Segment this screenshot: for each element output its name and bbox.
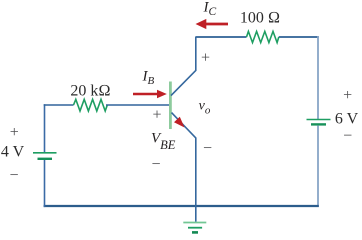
label: − of V_BE <box>151 156 160 173</box>
svg-text:20 kΩ: 20 kΩ <box>70 83 110 100</box>
resistor 20 kΩ (zigzag) <box>74 99 108 111</box>
svg-text:+: + <box>10 124 19 141</box>
svg-text:−: − <box>151 156 160 173</box>
wire: right rail upper (top corner down to 6V battery) <box>317 36 319 119</box>
label: − of v_o <box>203 140 212 157</box>
current arrow I_B (red, pointing right) <box>133 90 167 99</box>
svg-text:100 Ω: 100 Ω <box>240 10 280 27</box>
wire: base lead right segment (20k resistor to transistor base) <box>106 104 170 106</box>
battery 4V: short plate <box>38 158 53 160</box>
wire: left rail upper (top corner down to 4V battery) <box>44 104 46 152</box>
battery 6V: short plate <box>311 123 326 125</box>
label: − polarity of 6V source <box>343 128 352 145</box>
svg-text:+: + <box>152 106 161 123</box>
label: 100 Ω value <box>240 10 280 27</box>
ground: plate 2 (middle) <box>188 227 202 229</box>
label: V_BE <box>151 131 176 153</box>
ground: plate 1 (longest) <box>183 222 206 224</box>
transistor Q1: collector lead (diagonal + vertical to top wire) <box>171 37 196 96</box>
svg-text:−: − <box>203 140 212 157</box>
resistor 100 Ω (zigzag) <box>247 31 279 42</box>
label: v_o output voltage <box>199 98 211 116</box>
wire: right rail lower (6V battery down to bottom corner) <box>317 126 319 207</box>
transistor Q1: emitter arrowhead (npn, red) <box>174 117 185 128</box>
transistor Q1: emitter lead (diagonal + vertical down to ground) <box>172 113 196 222</box>
label: 4 V value <box>1 144 25 161</box>
wire: top-right segment (100 ohm resistor to right rail) <box>279 36 319 38</box>
ground: plate 3 (shortest) <box>192 231 198 234</box>
wire: bottom rail (left corner to right corner) <box>44 205 319 207</box>
label: I_B <box>142 68 155 87</box>
wire: left rail lower (4V battery down to bottom corner) <box>44 160 46 207</box>
battery 6V: long plate <box>307 119 331 121</box>
label: + polarity of 4V source <box>10 124 19 141</box>
wire: base lead left segment (left rail to 20k resistor) <box>44 104 74 106</box>
transistor Q1: base bar <box>169 82 172 130</box>
label: I_C <box>203 0 217 18</box>
svg-text:−: − <box>343 128 352 145</box>
label: + of v_o <box>201 49 210 66</box>
label: + of V_BE <box>152 106 161 123</box>
svg-text:4 V: 4 V <box>1 144 25 161</box>
battery 4V: long plate <box>33 152 57 154</box>
svg-text:+: + <box>201 49 210 66</box>
label: 20 kΩ value <box>70 83 110 100</box>
wire: top-left segment (collector node to 100 ohm resistor) <box>196 36 247 38</box>
current arrow I_C (red, pointing left) <box>196 19 229 29</box>
label: − polarity of 4V source <box>9 167 18 184</box>
label: 6 V value <box>335 110 359 127</box>
label: + polarity of 6V source <box>343 87 352 104</box>
svg-text:+: + <box>343 87 352 104</box>
svg-text:−: − <box>9 167 18 184</box>
svg-text:6 V: 6 V <box>335 110 359 127</box>
